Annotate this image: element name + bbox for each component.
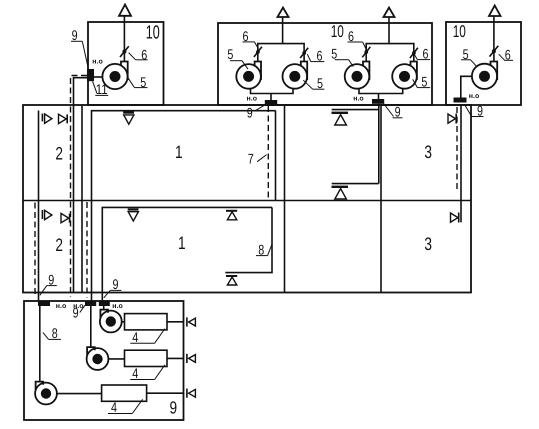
valve н.о A — [265, 100, 277, 105]
riser from left fan inlet — [74, 78, 88, 293]
supply valve room2 lower — [42, 210, 52, 220]
svg-text:9: 9 — [170, 398, 178, 418]
label 9 bar2 — [73, 305, 86, 321]
fan3 outlet — [57, 393, 102, 395]
damper 6 A-left — [254, 47, 262, 57]
svg-text:10: 10 — [331, 22, 344, 41]
svg-text:8: 8 — [258, 241, 264, 257]
exhaust grille room1 lower top — [226, 210, 237, 220]
svg-text:н.о: н.о — [56, 303, 66, 310]
svg-text:5: 5 — [421, 73, 427, 89]
fan inlet line left box — [94, 76, 103, 78]
svg-text:9: 9 — [72, 27, 78, 43]
manifold assembly A — [258, 44, 304, 62]
svg-text:9: 9 — [247, 104, 253, 120]
label 5 A-left — [227, 46, 248, 69]
wall room1 right upper — [275, 111, 277, 201]
exhaust duct from unit B — [332, 104, 379, 184]
svg-text:7: 7 — [248, 151, 254, 167]
valve room3 upper — [448, 114, 456, 124]
fan 5 right box — [472, 62, 497, 89]
fan unit box 10 right — [446, 22, 521, 105]
supply duct room1 upper — [92, 111, 276, 302]
riser supply left — [38, 111, 40, 302]
label 9 top-left — [71, 27, 88, 69]
supply grille room1 lower — [128, 208, 139, 221]
label 6 B-right — [414, 46, 430, 62]
valve н.о left box — [87, 69, 94, 81]
exhaust arrow assembly A — [278, 8, 289, 44]
svg-text:9: 9 — [477, 102, 483, 118]
svg-text:11: 11 — [96, 81, 108, 97]
svg-text:н.о: н.о — [112, 303, 122, 310]
exhaust grille mid upper — [332, 112, 349, 125]
label 9 bar3 riser — [104, 276, 122, 298]
svg-text:2: 2 — [55, 235, 63, 255]
svg-text:н.о: н.о — [247, 96, 257, 103]
valve н.о bar2 — [85, 301, 96, 306]
svg-text:н.о: н.о — [92, 59, 102, 66]
label 11 — [93, 81, 109, 97]
duct to valve middle — [167, 357, 184, 359]
label 4 middle — [130, 365, 165, 381]
riser dashed right column — [456, 107, 458, 192]
fan2 outlet — [108, 358, 124, 360]
label 9 right box — [465, 102, 484, 118]
fan unit box 10 middle — [218, 23, 432, 105]
svg-text:4: 4 — [132, 329, 138, 345]
fan inlet right box — [461, 76, 472, 97]
exhaust grille mid lower — [332, 186, 349, 199]
riser dashed left of fan inlet — [71, 76, 88, 298]
valve н.о bar3 — [99, 301, 110, 306]
damper 6 right box — [490, 46, 499, 57]
fan 2 box9 — [87, 306, 109, 370]
riser dashed x87 lower — [86, 202, 88, 298]
svg-text:10: 10 — [453, 22, 466, 41]
svg-text:6: 6 — [243, 28, 249, 44]
fan 3 box9 — [35, 306, 57, 405]
svg-text:6: 6 — [317, 47, 323, 63]
valve room3 lower — [451, 213, 459, 223]
label 6 B-left — [348, 28, 367, 49]
svg-text:6: 6 — [348, 28, 354, 44]
heater 4 middle — [125, 350, 168, 366]
duct to valve bottom — [147, 392, 184, 394]
exhaust arrow right box — [489, 6, 501, 62]
svg-text:1: 1 — [178, 233, 186, 253]
label 6 A-left — [243, 28, 259, 49]
svg-text:н.о: н.о — [469, 93, 479, 100]
label 4 top — [130, 329, 165, 345]
fan1 outlet — [122, 321, 125, 323]
svg-text:4: 4 — [132, 365, 138, 381]
suction collector A — [251, 88, 294, 100]
svg-text:3: 3 — [424, 234, 432, 254]
suction collector B — [359, 88, 403, 99]
fan 5 (left box) — [102, 62, 127, 90]
svg-text:10: 10 — [146, 23, 160, 44]
heater 4 bottom — [102, 385, 147, 401]
label 6 left box — [129, 46, 148, 62]
label 5 B-left — [331, 46, 353, 67]
fan 1 box9 — [100, 306, 122, 333]
label 9 left riser bottom — [40, 271, 57, 295]
svg-text:5: 5 — [331, 46, 337, 62]
fan 5 B-right — [392, 62, 417, 89]
label 5 left box — [128, 74, 147, 90]
riser dashed left lower — [34, 203, 36, 297]
svg-text:8: 8 — [52, 325, 58, 341]
fan 5 B-left — [345, 62, 370, 89]
label 9 A — [247, 104, 266, 120]
label 8 box9 — [43, 325, 61, 341]
svg-text:9: 9 — [113, 276, 119, 292]
exhaust valve room2 upper — [59, 114, 68, 123]
damper 6 B-left — [362, 47, 370, 58]
wall column mid — [284, 105, 286, 293]
exhaust valve room2 lower — [61, 213, 70, 222]
valve н.о bar1 — [38, 301, 50, 306]
label 5 B-right — [413, 73, 431, 89]
svg-text:9: 9 — [48, 271, 54, 287]
svg-text:2: 2 — [55, 144, 63, 164]
exhaust arrow box1 — [119, 5, 131, 62]
label 4 bottom — [108, 399, 143, 415]
duct to valve top — [167, 321, 184, 323]
outlet valve top — [187, 317, 196, 326]
svg-text:9: 9 — [73, 305, 79, 321]
damper 6 (left box) — [120, 46, 129, 57]
label 7 — [248, 151, 267, 167]
label 8 — [256, 241, 272, 257]
building outline — [23, 105, 471, 293]
svg-text:3: 3 — [424, 142, 432, 162]
label 9 B — [384, 104, 403, 120]
outlet valve middle — [187, 354, 196, 363]
exhaust duct 7 dashed — [267, 106, 269, 201]
svg-text:5: 5 — [227, 46, 233, 62]
fan 5 A-right — [283, 62, 308, 89]
supply unit box 9 — [24, 301, 184, 420]
fan unit box 10 left — [88, 22, 164, 105]
supply grille room1 upper — [123, 112, 134, 125]
wall room3 left — [380, 105, 382, 293]
exhaust duct 8 room1 lower — [225, 207, 272, 272]
label 6 right box — [499, 46, 513, 62]
svg-text:1: 1 — [175, 142, 183, 162]
label 5 A-right — [303, 75, 324, 91]
label 6 A-right — [307, 47, 324, 63]
heater 4 top — [125, 314, 168, 330]
outlet valve bottom — [187, 389, 196, 398]
valve н.о right box — [454, 98, 467, 103]
label 5 right box — [461, 46, 477, 67]
damper 6 B-right — [410, 48, 418, 58]
valve н.о B — [372, 99, 384, 104]
svg-text:4: 4 — [111, 399, 117, 415]
supply valve room2 upper — [42, 114, 52, 124]
riser right column — [460, 105, 462, 223]
exhaust grille room1 lower bottom — [226, 275, 237, 285]
riser x82 — [81, 105, 83, 293]
fan 5 A-left — [236, 62, 261, 89]
svg-text:н.о: н.о — [353, 96, 363, 103]
supply duct room1 lower — [102, 207, 272, 301]
floor divide — [23, 200, 471, 202]
manifold assembly B — [366, 44, 414, 62]
damper 6 A-right — [300, 48, 308, 58]
exhaust arrow assembly B — [384, 8, 395, 44]
